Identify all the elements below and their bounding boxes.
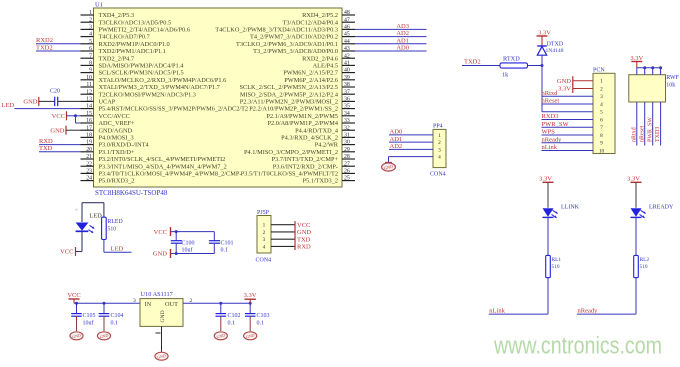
wire top to RLED	[103, 203, 105, 218]
svg-text:TXD2: TXD2	[36, 44, 53, 51]
svg-text:2: 2	[89, 17, 92, 23]
svg-text:19: 19	[86, 140, 92, 146]
U10 pin number 2	[190, 298, 193, 304]
svg-text:RL2: RL2	[640, 257, 650, 263]
wire VCC rail to C101	[171, 232, 215, 242]
svg-text:2: 2	[263, 230, 266, 236]
svg-text:6: 6	[89, 46, 92, 52]
svg-text:VCC: VCC	[297, 222, 310, 229]
U1 pin 16 (ADC_VREF+)	[81, 118, 136, 127]
svg-text:20: 20	[86, 147, 92, 153]
PCN pin number 2	[600, 86, 603, 92]
junction at C100 top	[175, 230, 178, 233]
svg-text:10uf: 10uf	[182, 247, 193, 254]
svg-text:nLink: nLink	[489, 307, 505, 314]
svg-text:31: 31	[344, 133, 350, 139]
svg-text:11: 11	[86, 82, 92, 88]
svg-text:AD3: AD3	[396, 23, 409, 30]
capacitor C105 10uf	[71, 303, 95, 331]
svg-text:17: 17	[86, 125, 92, 131]
capacitor C20	[50, 89, 60, 107]
svg-text:10: 10	[599, 148, 605, 154]
svg-text:RWF: RWF	[666, 75, 679, 81]
PCN pin number 9	[600, 141, 603, 147]
U1 pin 38 (SCLK_2/SCL_2/PWM5N_2/A13/P2.5)	[240, 82, 356, 91]
capacitor C100 10uf	[171, 241, 195, 254]
wire DTXD junction down to PCN pin 5	[542, 66, 593, 112]
svg-text:TXD: TXD	[297, 236, 311, 243]
svg-text:38: 38	[344, 82, 350, 88]
U1 pin 15 (VCC/AVCC)	[81, 111, 130, 120]
power port GND at U1 pin 17	[50, 126, 66, 135]
net label TXD3 (rotated) at RWF pin	[655, 127, 661, 142]
svg-text:5: 5	[89, 39, 92, 45]
svg-text:P4.3/RXD_4/SCLK_2: P4.3/RXD_4/SCLK_2	[281, 135, 338, 142]
watermark www.cntronics.com	[493, 333, 662, 360]
wire RLED circuit top	[82, 203, 104, 222]
svg-text:510: 510	[640, 264, 648, 270]
svg-text:AD2: AD2	[396, 30, 409, 37]
power port 3.3V above RWF	[630, 55, 643, 68]
svg-text:23: 23	[86, 169, 92, 175]
net label nLink	[489, 307, 505, 314]
net label WPS at PCN pin 8	[542, 129, 556, 136]
U1 pin 1 (TXD4_2/P5.3)	[81, 10, 135, 19]
svg-text:LED: LED	[2, 102, 15, 109]
wire RL1 to net nLink	[489, 278, 548, 314]
resistor RL1 510	[546, 255, 562, 277]
svg-text:4: 4	[263, 244, 266, 250]
IC U1 MCU STC8H8K64SU-TSOP48 body	[94, 8, 343, 187]
svg-text:P2.2/A10/PWM2P_2/PWM1/SS_2: P2.2/A10/PWM2P_2/PWM1/SS_2	[249, 106, 338, 113]
PJ5P part name CON4	[256, 258, 272, 264]
svg-text:4: 4	[600, 102, 603, 108]
PCN pin number 7	[600, 125, 603, 131]
wire PP4 pin 4 to ground	[389, 157, 434, 163]
svg-text:SCL/SCLK/PWM3N/ADC5/P1.5: SCL/SCLK/PWM3N/ADC5/P1.5	[99, 70, 184, 77]
LLINK label	[561, 205, 580, 211]
svg-text:ALE/P4.5: ALE/P4.5	[313, 63, 338, 70]
ground symbol at PP4 pin 4	[382, 162, 396, 171]
power port 3.3V at PCN pin 2	[558, 84, 573, 93]
LED LLINK	[543, 208, 558, 218]
svg-text:3: 3	[133, 298, 136, 304]
svg-text:C101: C101	[221, 241, 234, 247]
wire RL2 to net nReady	[577, 278, 636, 314]
svg-text:34: 34	[344, 111, 350, 117]
svg-text:GND: GND	[153, 251, 167, 258]
junction at DTXD anode	[541, 64, 544, 67]
svg-text:3.3V: 3.3V	[538, 29, 551, 36]
svg-text:RLED: RLED	[108, 219, 123, 225]
svg-text:18: 18	[86, 133, 92, 139]
wire TXD2 stub to RTXD	[462, 65, 500, 67]
svg-text:P2.1/A9/PWM1N_2/PWM5: P2.1/A9/PWM1N_2/PWM5	[266, 113, 338, 120]
wire AS1117 OUT to 3.3V	[183, 302, 250, 304]
svg-text:U1: U1	[95, 2, 103, 9]
svg-text:P5.0/RXD3_2: P5.0/RXD3_2	[99, 178, 135, 185]
U1 designator label	[95, 2, 103, 9]
wire GND rail under C100/C101	[171, 243, 215, 254]
junction dots on RWF bus	[643, 66, 662, 69]
U10 pin number 3	[133, 298, 136, 304]
svg-text:0.1: 0.1	[228, 320, 236, 326]
U1 pin 17 (GND/AGND)	[81, 125, 133, 134]
U10 GND label (rotated)	[160, 310, 166, 322]
svg-text:10: 10	[86, 75, 92, 81]
wire 3.3V to PCN pin 2	[573, 87, 593, 89]
svg-text:P4.4/RD/TXD_4: P4.4/RD/TXD_4	[295, 127, 339, 134]
svg-text:47: 47	[344, 17, 350, 23]
U1 pin 5 (RXD2/PWM1P/ADC0/P1.0)	[81, 39, 170, 48]
PCN pin number 5	[600, 110, 603, 116]
net label AD3	[396, 23, 409, 30]
svg-text:nRtxd: nRtxd	[631, 127, 637, 142]
svg-text:TXD4_2/P5.3: TXD4_2/P5.3	[99, 12, 135, 19]
power port 3.3V above LREADY	[627, 175, 641, 208]
LREADY label	[649, 205, 674, 211]
junction at C105	[75, 302, 78, 305]
U1 pin 25 (P5.1/TXD3_2)	[302, 176, 355, 185]
wire GND to PCN pin 1	[573, 80, 593, 82]
wire RLED to net LED	[104, 240, 132, 253]
wire VCC to AS1117 IN	[74, 302, 140, 304]
wire 3.3V bus across RWF top pins	[637, 68, 661, 75]
U1 pin 41 (ALE/P4.5)	[313, 61, 355, 70]
U1 pin 32 (P4.4/RD/TXD_4)	[295, 125, 355, 134]
svg-text:21: 21	[86, 154, 92, 160]
wire PWR_SW to PCN pin 7	[542, 126, 594, 128]
svg-text:C100: C100	[182, 241, 195, 247]
ground at C103	[244, 332, 257, 340]
RWF pin wire to net nReset	[644, 102, 646, 146]
svg-text:TXD: TXD	[39, 145, 53, 152]
svg-text:3: 3	[89, 25, 92, 31]
net label LED at U1 pin 14	[2, 102, 15, 109]
U1 pin 14 (P5.4/RST/MCLKO/SS/SS_3/PWM2P/PWM6_2/ADC2/T2)	[81, 104, 249, 113]
power port VCC at U1 pin 15	[52, 111, 67, 120]
svg-text:PWMETI2_2/T4/ADC14/AD6/P0.6: PWMETI2_2/T4/ADC14/AD6/P0.6	[99, 27, 190, 34]
svg-text:7: 7	[600, 125, 603, 131]
U1 pin 22 (P3.3/INT1/MISO_4/SDA_4/PWM4N_4/PWM7_2)	[81, 161, 227, 170]
resistor RL2 510	[634, 255, 650, 277]
wire U1 pin 46 to net AD3	[355, 28, 427, 30]
wire TXD2 to pin 6	[36, 50, 81, 52]
wire nLink to PCN pin 10	[542, 149, 594, 151]
PP4 designator	[433, 124, 443, 130]
svg-text:3.3V: 3.3V	[539, 175, 552, 182]
voltage regulator U10 AS1117 body	[140, 299, 183, 327]
svg-text:24: 24	[86, 176, 92, 182]
svg-text:PWM6P_2/A14/P2.6: PWM6P_2/A14/P2.6	[284, 77, 338, 84]
LED designator label	[90, 212, 103, 219]
net label AD2	[396, 30, 409, 37]
U1 pin 3 (PWMETI2_2/T4/ADC14/AD6/P0.6)	[81, 25, 190, 34]
svg-text:14: 14	[86, 104, 92, 110]
PP4 pin number 3	[438, 147, 441, 153]
svg-text:36: 36	[344, 97, 350, 103]
U1 pin 13 (UCAP)	[81, 97, 116, 106]
svg-text:P3.7/INT3/TXD_2/CMP+: P3.7/INT3/TXD_2/CMP+	[272, 156, 339, 163]
svg-text:T4CLKO_2/PWM8_3/TXD4/ADC11/AD3: T4CLKO_2/PWM8_3/TXD4/ADC11/AD3/P0.3	[215, 27, 338, 34]
svg-text:P5.1/TXD3_2: P5.1/TXD3_2	[302, 178, 338, 185]
svg-text:LED: LED	[111, 246, 124, 253]
svg-text:GND: GND	[557, 78, 571, 85]
PCN designator	[593, 68, 605, 74]
U1 pin 8 (SDA/MISO/PWM3P/ADC4/P1.4)	[81, 61, 185, 70]
U1 pin 9 (SCL/SCLK/PWM3N/ADC5/P1.5)	[81, 68, 184, 77]
svg-text:VCC: VCC	[67, 292, 80, 299]
ground at C104	[97, 332, 110, 340]
U1 pin 27 (P3.6/INT2/RXD_2/CMP-)	[273, 161, 355, 170]
svg-text:CON4: CON4	[256, 258, 272, 264]
power port VCC below LED	[60, 247, 75, 256]
svg-text:40: 40	[344, 68, 350, 74]
svg-text:T3CLKO/ADC13/AD5/P0.5: T3CLKO/ADC13/AD5/P0.5	[99, 19, 172, 26]
wire VCC to pins 15 and 16	[67, 116, 81, 123]
ground at C102	[214, 332, 227, 340]
svg-text:P3.2/INT0/SCLK_4/SCL_4/PWMETI/: P3.2/INT0/SCLK_4/SCL_4/PWMETI/PWMETI2	[99, 156, 226, 163]
net label TXD at U1 pin 20	[39, 145, 53, 152]
ground at C105	[70, 332, 83, 340]
junction at C104	[103, 302, 106, 305]
svg-text:48: 48	[344, 10, 350, 16]
svg-text:DTXD: DTXD	[547, 42, 564, 48]
wire net AD1 to PP4 pin 2	[389, 141, 433, 143]
wire U10 GND pin to ground	[156, 326, 162, 351]
net label nRtxd (rotated) at RWF pin	[631, 127, 637, 142]
wire LLINK to RL1	[547, 217, 549, 255]
diode DTXD 1N4148	[537, 42, 564, 66]
svg-text:510: 510	[552, 264, 560, 270]
svg-text:T3CLKO_2/PWM6_3/ADC9/AD1/P0.1: T3CLKO_2/PWM6_3/ADC9/AD1/P0.1	[236, 41, 338, 48]
wire RXD to pin 19	[39, 144, 81, 146]
U1 pin 29 (P4.1/MISO_3/CMPO_2/PWMETI_2)	[244, 147, 355, 156]
svg-text:4: 4	[89, 32, 92, 38]
net label PWR_SW at PCN pin 7	[542, 121, 570, 128]
svg-text:VCC/AVCC: VCC/AVCC	[99, 113, 130, 120]
U1 pin 43 (T3_2/PWM5_3/ADC8/AD0/P0.0)	[253, 46, 355, 55]
svg-text:2: 2	[438, 140, 441, 146]
svg-text:TXD2: TXD2	[464, 59, 481, 66]
resistor RTXD 1k	[500, 56, 528, 79]
wire GND bar to C20	[39, 100, 55, 102]
svg-text:AD0: AD0	[390, 129, 403, 136]
svg-text:16: 16	[86, 118, 92, 124]
svg-text:TXD3: TXD3	[655, 127, 661, 142]
svg-text:STC8H8K64SU-TSOP48: STC8H8K64SU-TSOP48	[95, 189, 168, 197]
PCN pin number 4	[600, 102, 603, 108]
svg-text:3.3V: 3.3V	[244, 292, 257, 299]
svg-text:LLINK: LLINK	[561, 205, 580, 211]
svg-text:8: 8	[600, 133, 603, 139]
svg-text:OUT: OUT	[165, 301, 178, 308]
PCN pin number 10	[599, 148, 605, 154]
wire RXD2 to pin 5	[36, 43, 81, 45]
svg-text:GND: GND	[160, 310, 166, 322]
U1 pin 42 (RXD2_2/P4.6)	[302, 53, 355, 62]
svg-text:3.3V: 3.3V	[630, 55, 643, 62]
PP4 pin number 1	[438, 133, 441, 139]
wire PJ5P pin 2 to GND	[271, 231, 295, 233]
svg-text:MISO_2/SDA_2/PWM5P_2/A12/P2.4: MISO_2/SDA_2/PWM5P_2/A12/P2.4	[240, 91, 339, 98]
capacitor C103 0.1	[245, 303, 270, 331]
svg-text:9: 9	[89, 68, 92, 74]
svg-text:27: 27	[344, 161, 350, 167]
PP4 pin number 4	[438, 155, 441, 161]
svg-text:AD0: AD0	[396, 45, 409, 52]
svg-text:1: 1	[600, 79, 603, 85]
net label TXD2 (to RTXD)	[464, 59, 481, 66]
PCN pin number 6	[600, 117, 603, 123]
svg-text:GND: GND	[50, 127, 64, 134]
U1 pin 36 (P2.3/A11/PWM2N_2/PWM3/MOSI_2)	[240, 97, 355, 106]
connector PCN body	[593, 73, 615, 153]
svg-text:10k: 10k	[666, 83, 675, 89]
U1 pin 47 (T3/ADC12/AD4/P0.4)	[283, 17, 355, 26]
wire TXD to pin 20	[39, 151, 81, 153]
svg-text:C103: C103	[257, 313, 270, 319]
svg-text:10uf: 10uf	[83, 319, 94, 326]
svg-text:T2CLKO/MOSI/PWM2N/ADC3/P1.3: T2CLKO/MOSI/PWM2N/ADC3/P1.3	[99, 91, 196, 98]
svg-text:37: 37	[344, 89, 350, 95]
svg-text:43: 43	[344, 46, 350, 52]
svg-text:PP4: PP4	[433, 124, 443, 130]
PP4 pin number 2	[438, 140, 441, 146]
svg-text:T3_2/PWM5_3/ADC8/AD0/P0.0: T3_2/PWM5_3/ADC8/AD0/P0.0	[253, 48, 338, 55]
U1 pin 20 (P3.1/TXD/D+)	[81, 147, 135, 156]
svg-text:VCC: VCC	[154, 229, 167, 236]
svg-text:ADC_VREF+: ADC_VREF+	[99, 120, 136, 127]
U1 pin 10 (XTALO/MCLKO_2/RXD_3/PWM4P/ADC6/P1.6)	[81, 75, 227, 84]
U1 pin 40 (PWM6N_2/A15/P2.7)	[283, 68, 355, 77]
U1 pin 24 (P5.0/RXD3_2)	[81, 176, 135, 185]
net label AD0	[396, 45, 409, 52]
svg-text:nReady: nReady	[578, 307, 599, 314]
net label nReady at PCN pin 9	[542, 136, 563, 143]
svg-text:AD1: AD1	[396, 37, 409, 44]
svg-text:AD1: AD1	[390, 136, 403, 143]
wire nRtxd to PCN pin 3	[542, 95, 594, 97]
PJ5P designator	[257, 210, 270, 216]
net label AD0 at PP4	[390, 129, 403, 136]
svg-text:25: 25	[344, 176, 350, 182]
junction at C100 bottom	[175, 252, 178, 255]
svg-text:P4.1/MISO_3/CMPO_2/PWMETI_2: P4.1/MISO_3/CMPO_2/PWMETI_2	[244, 149, 338, 156]
RWF pin wire to net PWR_SW	[652, 102, 654, 146]
U1 pin 19 (P3.0/RXD/D-/INT4)	[81, 140, 150, 149]
wire RTXD to diode junction	[528, 65, 543, 67]
svg-text:GND: GND	[23, 99, 37, 106]
svg-text:RXD: RXD	[39, 138, 53, 145]
svg-text:RXD4_2/P5.2: RXD4_2/P5.2	[302, 12, 338, 19]
svg-text:XTALI/PWM3_2/TXD_3/PWM4N/ADC7/: XTALI/PWM3_2/TXD_3/PWM4N/ADC7/P1.7	[99, 84, 220, 91]
svg-text:P3.3/INT1/MISO_4/SDA_4/PWM4N_4: P3.3/INT1/MISO_4/SDA_4/PWM4N_4/PWM7_2	[99, 163, 227, 170]
U1 pin 21 (P3.2/INT0/SCLK_4/SCL_4/PWMETI/PWMETI2)	[81, 154, 226, 163]
svg-text:P4.2/WR: P4.2/WR	[315, 142, 339, 149]
svg-text:1: 1	[438, 133, 441, 139]
U1 pin 37 (MISO_2/SDA_2/PWM5P_2/A12/P2.4)	[240, 89, 355, 98]
wire U1 pin 45 to net AD2	[355, 36, 427, 38]
svg-text:C105: C105	[83, 313, 96, 319]
PJ5P pin number 3	[263, 237, 266, 243]
U1 pin 11 (XTALI/PWM3_2/TXD_3/PWM4N/ADC7/P1.7)	[81, 82, 220, 91]
U1 pin 7 (TXD2_2/P4.7)	[81, 53, 135, 62]
net label RXD at U1 pin 19	[39, 138, 53, 145]
svg-text:8: 8	[89, 61, 92, 67]
LED LREADY	[631, 208, 646, 218]
net label PWR_SW (rotated) at RWF pin	[647, 117, 653, 142]
wire net AD0 to PP4 pin 1	[389, 134, 433, 136]
wire PJ5P pin 3 to TXD	[271, 238, 295, 240]
svg-text:3: 3	[600, 94, 603, 100]
svg-text:LREADY: LREADY	[649, 205, 674, 211]
net label AD1	[396, 37, 409, 44]
wire GND to pin 17	[66, 129, 81, 131]
net label TXD2 at U1 pin 6	[36, 44, 53, 51]
power port VCC at AS1117 input	[67, 292, 80, 303]
net label RXD2 at U1 pin 5	[36, 37, 53, 44]
svg-text:1: 1	[263, 223, 266, 229]
svg-text:P3.0/RXD/D-/INT4: P3.0/RXD/D-/INT4	[99, 142, 150, 149]
power port GND at PJ5P pin 2	[295, 228, 311, 236]
svg-text:0.1: 0.1	[111, 320, 119, 326]
wire net AD2 to PP4 pin 3	[389, 148, 433, 150]
power port 3.3V above LLINK	[539, 175, 553, 208]
power port VCC at PJ5P pin 1	[295, 221, 310, 229]
junction at C103/3.3V	[249, 302, 252, 305]
svg-text:P3.1/TXD/D+: P3.1/TXD/D+	[99, 149, 135, 156]
svg-text:6: 6	[600, 117, 603, 123]
resistor network RWF 10k body	[629, 75, 666, 102]
net label nReady	[578, 307, 599, 314]
svg-text:T3/ADC12/AD4/P0.4: T3/ADC12/AD4/P0.4	[283, 19, 339, 26]
RWF pin wire to net TXD3	[660, 102, 662, 146]
U1 pin 44 (T3CLKO_2/PWM6_3/ADC9/AD1/P0.1)	[236, 39, 355, 48]
U1 pin 12 (T2CLKO/MOSI/PWM2N/ADC3/P1.3)	[81, 89, 196, 98]
svg-text:44: 44	[344, 39, 350, 45]
svg-text:46: 46	[344, 25, 350, 31]
svg-text:UCAP: UCAP	[99, 99, 116, 106]
net label AD2 at PP4	[390, 143, 403, 150]
connector PP4 (CON4) body	[433, 129, 446, 167]
svg-text:RL1: RL1	[552, 257, 562, 263]
svg-text:45: 45	[344, 32, 350, 38]
U1 pin 45 (T4_2/PWM7_3/ADC10/AD2/P0.2)	[250, 32, 355, 41]
U1 pin 35 (P2.2/A10/PWM2P_2/PWM1/SS_2)	[249, 104, 355, 113]
svg-text:35: 35	[344, 104, 350, 110]
svg-text:P3.4/T0/T1CLKO/MOSI_4/PWM4P_4/: P3.4/T0/T1CLKO/MOSI_4/PWM4P_4/PWM8_2/CMP…	[99, 171, 242, 178]
ground at U10	[155, 352, 168, 360]
svg-text:CON4: CON4	[430, 172, 446, 178]
wire RXD3 to PCN pin 6	[542, 118, 594, 120]
PJ5P pin number 4	[263, 244, 266, 250]
power port GND at C20	[23, 97, 38, 106]
svg-text:30: 30	[344, 140, 350, 146]
PJ5P pin number 2	[263, 230, 266, 236]
power port 3.3V at AS1117 output	[244, 292, 257, 303]
PCN pin number 1	[600, 79, 603, 85]
wire C20 to U1 pin 13 (UCAP)	[58, 100, 81, 102]
svg-text:1N4148: 1N4148	[546, 48, 564, 54]
PCN pin number 8	[600, 133, 603, 139]
svg-text:13: 13	[86, 97, 92, 103]
svg-text:0.1: 0.1	[221, 248, 229, 254]
power port VCC at C100	[154, 227, 171, 236]
junction at C102	[219, 302, 222, 305]
svg-text:3.3V: 3.3V	[627, 175, 640, 182]
svg-text:1k: 1k	[502, 72, 509, 79]
